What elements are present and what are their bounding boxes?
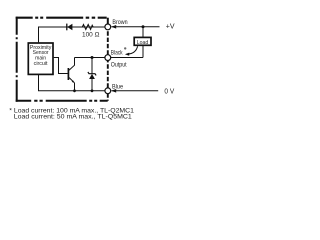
transistor Q1 base bar bbox=[67, 68, 69, 80]
svg-text:Output: Output bbox=[111, 62, 127, 69]
junction: zener to bottom rail bbox=[91, 89, 94, 92]
enclosure right edge dashed segment Brown-Black bbox=[107, 30, 109, 54]
svg-text:Black: Black bbox=[111, 50, 123, 57]
terminal node: Black bbox=[105, 55, 111, 61]
diode D1 (cathode bar) bbox=[66, 24, 68, 31]
wire: 0V line bbox=[112, 90, 159, 92]
terminal node: Brown bbox=[105, 24, 111, 30]
load box bbox=[134, 37, 151, 45]
wire: collector rail to Black node bbox=[75, 57, 105, 59]
enclosure right edge upper solid segment bbox=[107, 18, 109, 25]
arrowhead into Blue node bbox=[111, 89, 116, 93]
svg-text:Load current: 50 mA max., TL-Q: Load current: 50 mA max., TL-Q5MC1 bbox=[14, 114, 133, 121]
wire: bottom rail bbox=[39, 75, 105, 91]
zener diode ZD1 triangle (anode, pointing up) bbox=[89, 74, 95, 79]
svg-text:Load: Load bbox=[137, 40, 149, 46]
zener diode ZD1 cathode bar with ticks bbox=[88, 72, 96, 75]
wire: output line from Black node bbox=[111, 57, 143, 59]
svg-text:+V: +V bbox=[166, 24, 175, 31]
enclosure right edge dashed segment Black-Blue bbox=[107, 61, 109, 88]
svg-text:Brown: Brown bbox=[112, 19, 128, 26]
enclosure top edge (chain line) bbox=[16, 17, 108, 19]
svg-text:circuit: circuit bbox=[34, 61, 48, 67]
wire: zener lower lead bbox=[91, 79, 93, 91]
transistor Q1 collector bbox=[69, 58, 75, 71]
wire: +V line bbox=[112, 26, 160, 28]
resistor R1 100 ohm (zigzag) bbox=[81, 24, 96, 29]
arrowhead into Brown node bbox=[111, 25, 116, 29]
asterisk by Black bbox=[124, 47, 126, 49]
node: zener top junction bbox=[91, 56, 94, 59]
transistor Q1 emitter with arrow bbox=[69, 78, 74, 83]
wire: emitter down to bottom rail bbox=[74, 83, 76, 91]
curved arrow from load to asterisk bbox=[127, 46, 137, 54]
terminal node: Blue bbox=[105, 88, 111, 94]
svg-text:100 Ω: 100 Ω bbox=[82, 31, 99, 38]
wire: load lower lead down to output line bbox=[142, 46, 144, 58]
diode D1 (triangle pointing left) bbox=[67, 24, 72, 31]
enclosure right edge lower segment bbox=[107, 94, 109, 101]
svg-text:0 V: 0 V bbox=[164, 88, 174, 95]
proximity sensor main circuit box U1 bbox=[28, 43, 53, 74]
enclosure bottom edge (chain line) bbox=[16, 100, 108, 102]
wire: base lead from box to transistor bbox=[54, 58, 68, 74]
wire: load upper lead bbox=[142, 27, 144, 38]
junction: emitter to bottom rail bbox=[73, 89, 76, 92]
wire: zener upper lead bbox=[91, 58, 93, 74]
wire: top rail bbox=[39, 27, 105, 42]
enclosure left edge (chain line) bbox=[16, 17, 18, 102]
junction: load tap on +V line bbox=[142, 25, 145, 28]
svg-text:Blue: Blue bbox=[112, 84, 123, 91]
